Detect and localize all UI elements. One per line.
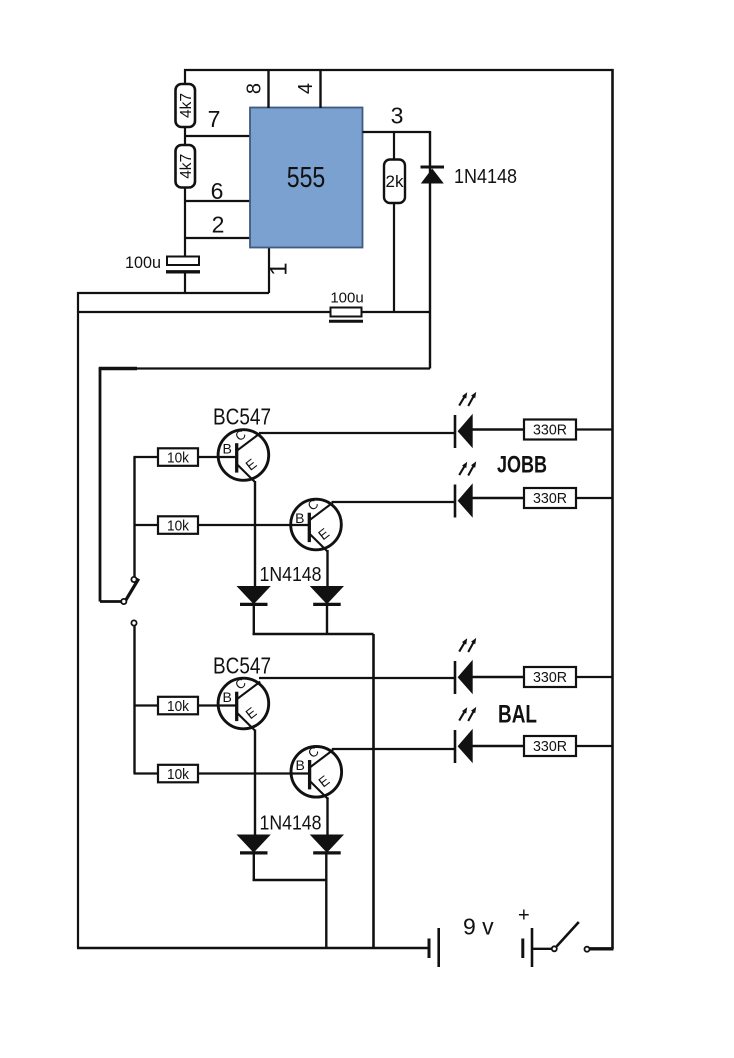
diode D2 1N4148 <box>310 586 344 604</box>
diode D0 1N4148 pointing up <box>421 166 518 188</box>
node base bus lower <box>134 626 310 774</box>
diode D1 1N4148 <box>237 586 271 604</box>
resistor R5 10k <box>158 516 198 534</box>
svg-text:1N4148: 1N4148 <box>260 813 322 835</box>
wire diode bus lower <box>253 879 327 881</box>
capacitor C1 100u <box>167 257 199 266</box>
svg-text:9 v: 9 v <box>463 914 494 940</box>
wire Q1 emitter down <box>254 481 256 587</box>
wire Q2 emitter down <box>326 550 328 587</box>
pin 8 <box>244 69 269 108</box>
capacitor C2 100u <box>329 290 364 322</box>
wire R8 to Q3 base <box>198 704 236 706</box>
resistor R10 330R <box>524 667 576 687</box>
op-amp U1 555 timer <box>250 108 363 248</box>
wire Q3 emitter down <box>254 730 256 836</box>
svg-text:BC547: BC547 <box>213 404 271 430</box>
svg-text:6: 6 <box>211 178 224 204</box>
wire pin 3 <box>363 131 431 133</box>
wire Q4 emitter down <box>326 797 328 835</box>
battery B1 9v cell 1 <box>429 928 439 967</box>
wire pin 2 <box>185 237 250 239</box>
wire switch feed vertical <box>99 368 102 602</box>
resistor R4 10k <box>158 448 198 466</box>
wire R9 to Q4 base <box>198 772 309 774</box>
svg-text:1N4148: 1N4148 <box>260 564 322 586</box>
wire switch to right rail <box>590 947 614 950</box>
wire 330R to rail <box>576 497 613 499</box>
svg-text:1N4148: 1N4148 <box>454 166 517 188</box>
wire cap to ground line <box>184 273 186 293</box>
wire pin 7 <box>185 135 250 137</box>
wire left rail <box>77 292 79 948</box>
svg-text:BC547: BC547 <box>213 653 271 679</box>
wire bottom rail <box>77 947 429 949</box>
wire Q3 collector to LED3 <box>259 677 454 679</box>
wire Q2 collector to LED2 <box>332 501 455 503</box>
resistor R2 4k7 <box>176 145 196 188</box>
resistor R9 10k <box>158 765 198 783</box>
transistor Q1 BC547 <box>218 427 269 483</box>
wire Q4 collector to LED4 <box>332 748 454 750</box>
wire battery to switch <box>532 948 552 950</box>
resistor R8 10k <box>158 697 198 715</box>
LED LED2 <box>455 461 476 517</box>
wire top supply rail <box>184 69 614 71</box>
LED LED1 <box>455 392 476 448</box>
wire D3 to bus <box>253 853 255 881</box>
svg-text:1: 1 <box>266 262 293 275</box>
battery B1 cell 2 <box>523 928 532 967</box>
wire to 10k R8 <box>134 704 159 706</box>
wire right supply rail <box>611 69 614 949</box>
resistor R6 330R <box>524 420 576 440</box>
wire to 10k R4 <box>134 456 159 458</box>
wire to switch pole <box>100 600 122 603</box>
wire bus down to bottom rail <box>372 634 375 948</box>
transistor Q3 BC547 <box>218 675 269 731</box>
wire to 10k R5 <box>134 524 159 526</box>
transistor Q4 BC547 <box>291 743 342 799</box>
wire 330R to rail <box>576 428 613 430</box>
svg-text:2: 2 <box>212 212 225 238</box>
svg-text:4k7: 4k7 <box>178 154 195 179</box>
svg-text:3: 3 <box>391 103 404 129</box>
wire pin 6 <box>185 200 250 202</box>
resistor R7 330R <box>524 488 576 508</box>
resistor R1 4k7 <box>176 84 196 127</box>
wire LED2 to 330R <box>472 497 524 499</box>
wire between 4k7 resistors <box>184 127 186 145</box>
svg-text:BAL: BAL <box>498 701 537 729</box>
wire LED4 to 330R <box>472 745 524 747</box>
resistor R11 330R <box>524 736 576 756</box>
wire output feed line <box>100 367 430 369</box>
diode D3 1N4148 <box>237 835 271 853</box>
node lower throw contact <box>131 620 136 625</box>
svg-text:8: 8 <box>244 83 266 94</box>
wire D2 to bus <box>326 605 328 636</box>
wire LED3 to 330R <box>472 676 524 678</box>
wire R5 to Q2 base <box>198 524 309 526</box>
wire 330R to rail <box>576 676 613 678</box>
svg-text:4k7: 4k7 <box>178 93 195 118</box>
wire ground line pin1 <box>77 292 269 294</box>
diode D4 1N4148 <box>310 835 344 853</box>
wire LED1 to 330R <box>472 428 524 430</box>
node base bus upper <box>134 457 310 578</box>
svg-text:555: 555 <box>287 162 326 194</box>
LED LED3 <box>455 638 476 694</box>
wire 100u line <box>78 311 331 313</box>
wire D4 down to bottom rail <box>325 853 327 948</box>
wire pin 1 <box>268 247 270 293</box>
svg-text:JOBB: JOBB <box>497 452 547 479</box>
wire diode output vertical <box>429 131 431 369</box>
wire diode bus upper <box>253 633 374 636</box>
switch SW1 <box>121 577 138 604</box>
wire D1 to bus <box>253 605 255 636</box>
svg-text:100u: 100u <box>330 290 363 307</box>
pin 4 <box>295 69 321 108</box>
LED LED4 <box>455 707 476 763</box>
wire R4 to Q1 base <box>198 456 236 458</box>
svg-text:7: 7 <box>208 106 221 132</box>
wire 330R to rail <box>576 745 613 747</box>
wire top rail to 4k7 <box>184 69 186 85</box>
wire to 10k R9 <box>134 772 159 774</box>
svg-text:100u: 100u <box>125 253 161 272</box>
svg-text:2k: 2k <box>386 172 404 191</box>
switch SW2 power <box>552 922 590 952</box>
wire below R2 to cap <box>184 188 186 258</box>
wire Q1 collector to LED1 <box>259 432 454 434</box>
resistor R3 2k <box>384 132 405 312</box>
transistor Q2 BC547 <box>291 496 342 552</box>
svg-text:4: 4 <box>295 83 317 94</box>
svg-text:+: + <box>518 905 530 927</box>
